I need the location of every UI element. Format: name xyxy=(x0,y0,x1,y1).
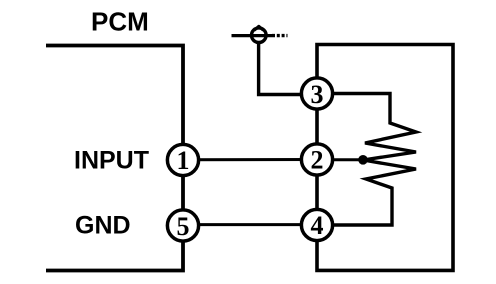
svg-text:4: 4 xyxy=(311,211,324,240)
svg-text:1: 1 xyxy=(177,146,190,175)
svg-text:3: 3 xyxy=(311,80,324,109)
svg-text:GND: GND xyxy=(75,212,131,240)
svg-text:5: 5 xyxy=(177,212,190,241)
svg-text:PCM: PCM xyxy=(91,7,149,37)
svg-text:INPUT: INPUT xyxy=(74,146,149,174)
svg-text:2: 2 xyxy=(311,145,324,174)
